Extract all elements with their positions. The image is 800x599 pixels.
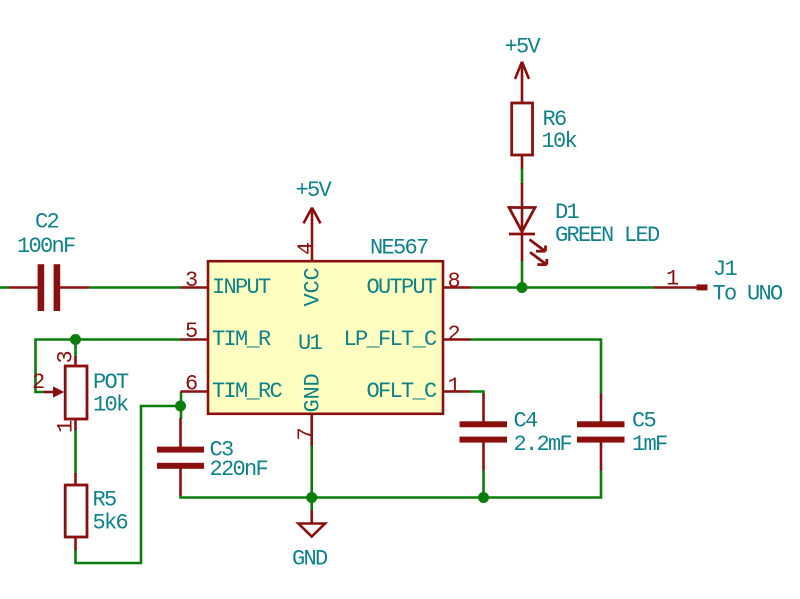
svg-text:C5: C5 [632,409,656,434]
svg-text:OUTPUT: OUTPUT [366,275,437,300]
svg-text:VCC: VCC [301,267,326,306]
svg-text:OFLT_C: OFLT_C [366,379,437,404]
svg-text:2.2mF: 2.2mF [514,432,572,457]
svg-text:GND: GND [301,373,326,412]
svg-text:LP_FLT_C: LP_FLT_C [343,327,437,352]
svg-text:1: 1 [448,374,461,399]
svg-text:1: 1 [54,420,79,433]
svg-text:TIM_RC: TIM_RC [212,379,283,404]
svg-text:2: 2 [32,370,44,395]
svg-text:8: 8 [448,269,460,294]
svg-text:D1: D1 [555,200,580,225]
svg-text:220nF: 220nF [210,457,268,482]
svg-text:10k: 10k [93,393,129,418]
svg-text:+5V: +5V [296,178,333,203]
svg-text:C4: C4 [514,409,539,434]
svg-text:C2: C2 [35,210,59,235]
svg-text:INPUT: INPUT [212,275,271,300]
svg-text:To UNO: To UNO [713,282,784,307]
svg-text:5k6: 5k6 [93,511,128,536]
svg-text:TIM_R: TIM_R [212,327,271,352]
svg-text:POT: POT [93,370,129,395]
svg-text:1: 1 [666,267,679,292]
svg-text:J1: J1 [713,257,738,282]
svg-text:100nF: 100nF [17,234,75,259]
svg-text:NE567: NE567 [370,236,428,261]
svg-text:4: 4 [294,242,319,255]
svg-text:U1: U1 [298,331,323,356]
svg-text:R5: R5 [93,488,117,513]
svg-text:GREEN LED: GREEN LED [555,223,660,248]
svg-text:5: 5 [185,319,197,344]
svg-text:2: 2 [448,322,460,347]
svg-text:+5V: +5V [505,35,542,60]
svg-text:3: 3 [54,352,79,364]
svg-text:6: 6 [185,372,197,397]
svg-text:7: 7 [294,429,319,441]
svg-text:3: 3 [185,268,197,293]
svg-text:1mF: 1mF [632,432,667,457]
svg-text:10k: 10k [542,129,578,154]
svg-text:GND: GND [292,547,328,572]
